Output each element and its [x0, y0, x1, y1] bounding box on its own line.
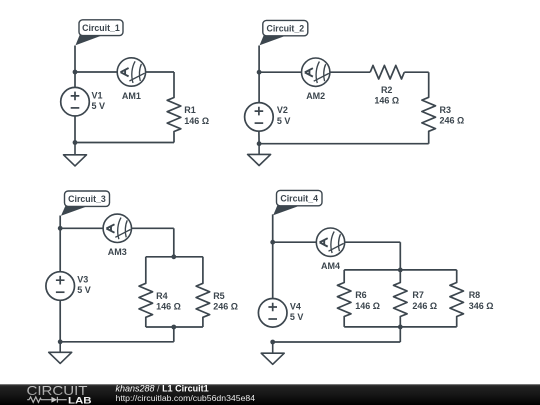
wire AM4 to corner C4 [345, 241, 401, 243]
svg-text:146 Ω: 146 Ω [184, 116, 209, 126]
wire AM2 to R2 [330, 71, 370, 73]
ground C2 [248, 144, 271, 166]
svg-text:5 V: 5 V [77, 285, 91, 295]
wire R2 to corner C2 [404, 71, 428, 73]
ammeter AM2 [302, 58, 330, 86]
wire bottom C4 [273, 341, 401, 343]
svg-text:AM3: AM3 [108, 247, 127, 257]
node junction C2 bottom [257, 141, 262, 146]
wire top left C1 [75, 71, 117, 73]
voltage source V1 [61, 87, 90, 116]
wire bottom C3 [60, 341, 174, 343]
wire left vertical C2 [258, 46, 260, 104]
wire rail top C4 [344, 269, 457, 271]
wire left vertical C1 [74, 46, 76, 88]
wire V1 to bottom C1 [74, 116, 76, 143]
footer bar [0, 384, 540, 405]
svg-text:5 V: 5 V [92, 101, 106, 111]
wire corner down C3 [173, 228, 175, 256]
svg-text:R6: R6 [355, 290, 367, 300]
wire AM1 to corner C1 [146, 71, 174, 73]
flag label Circuit_2 [260, 20, 308, 45]
flag label Circuit_1 [76, 20, 124, 45]
svg-text:5 V: 5 V [290, 312, 304, 322]
wire top left C3 [60, 227, 103, 229]
voltage source V2 [245, 103, 274, 132]
svg-text:Circuit_3: Circuit_3 [68, 194, 106, 204]
wire left vertical C4 [272, 214, 274, 298]
svg-text:AM2: AM2 [306, 91, 325, 101]
ammeter AM1 [117, 58, 145, 86]
svg-text:V4: V4 [290, 301, 301, 311]
svg-text:LAB: LAB [68, 396, 92, 405]
resistor R5 [196, 257, 210, 327]
svg-text:V3: V3 [77, 274, 88, 284]
node junction C2 top [257, 70, 262, 75]
svg-text:R1: R1 [184, 105, 196, 115]
svg-text:246 Ω: 246 Ω [440, 116, 465, 126]
resistor R3 [422, 72, 436, 144]
svg-text:246 Ω: 246 Ω [213, 302, 238, 312]
voltage source V4 [258, 299, 287, 328]
svg-text:5 V: 5 V [277, 116, 291, 126]
svg-text:V2: V2 [277, 105, 288, 115]
svg-text:246 Ω: 246 Ω [412, 301, 437, 311]
wire rail stub down C4 [399, 327, 401, 342]
ground C4 [261, 342, 284, 364]
wire AM3 to corner C3 [132, 227, 174, 229]
svg-text:AM4: AM4 [321, 261, 340, 271]
svg-text:R3: R3 [440, 105, 452, 115]
svg-text:146 Ω: 146 Ω [355, 301, 380, 311]
wire bottom C2 [259, 143, 429, 145]
node junction C1 top [73, 70, 78, 75]
wire top left C4 [273, 241, 317, 243]
svg-text:R2: R2 [381, 85, 393, 95]
svg-text:V1: V1 [92, 90, 103, 100]
ground C3 [49, 342, 72, 364]
resistor R7 [394, 270, 408, 327]
resistor R1 [167, 72, 181, 143]
wire V3 to bottom C3 [59, 300, 61, 342]
ammeter AM4 [316, 228, 344, 256]
svg-text:R5: R5 [213, 291, 225, 301]
wire V2 to bottom C2 [258, 131, 260, 144]
CircuitLab logo resistor and diode [27, 397, 66, 403]
node junction C3 rail top [171, 254, 176, 259]
node junction C3 bottom [58, 339, 63, 344]
node junction C4 rail bottom [398, 325, 403, 330]
wire top left C2 [259, 71, 301, 73]
wire bottom C1 [75, 142, 174, 144]
wire left vertical C3 [59, 216, 61, 272]
wire rail bottom C4 [344, 326, 457, 328]
ground C1 [64, 143, 87, 166]
svg-text:R7: R7 [412, 290, 424, 300]
flag label Circuit_4 [273, 190, 322, 215]
resistor R6 [337, 270, 351, 327]
svg-text:146 Ω: 146 Ω [374, 95, 399, 105]
node junction C4 top [270, 240, 275, 245]
svg-text:Circuit_4: Circuit_4 [280, 193, 318, 203]
node junction C4 bottom [270, 340, 275, 345]
svg-text:R8: R8 [469, 290, 481, 300]
node junction C4 rail top [398, 268, 403, 273]
wire rail stub down C3 [173, 327, 175, 342]
node junction C3 rail bottom [171, 325, 176, 330]
flag label Circuit_3 [61, 191, 110, 216]
wire corner down C4 [399, 242, 401, 270]
svg-text:khans288 / L1 Circuit1: khans288 / L1 Circuit1 [116, 383, 209, 393]
wire rail bottom C3 [146, 326, 203, 328]
svg-text:Circuit_2: Circuit_2 [266, 23, 304, 33]
svg-text:AM1: AM1 [122, 91, 141, 101]
svg-text:346 Ω: 346 Ω [469, 301, 494, 311]
resistor R2 [370, 65, 404, 79]
svg-text:Circuit_1: Circuit_1 [82, 23, 120, 33]
svg-text:146 Ω: 146 Ω [156, 302, 181, 312]
svg-text:http://circuitlab.com/cub56dn3: http://circuitlab.com/cub56dn345e84 [116, 393, 256, 403]
node junction C3 top [58, 226, 63, 231]
voltage source V3 [46, 272, 75, 301]
node junction C1 bottom [73, 140, 78, 145]
svg-text:R4: R4 [156, 291, 168, 301]
resistor R4 [139, 257, 153, 327]
resistor R8 [450, 270, 464, 327]
wire rail top C3 [146, 256, 203, 258]
ammeter AM3 [103, 214, 131, 242]
